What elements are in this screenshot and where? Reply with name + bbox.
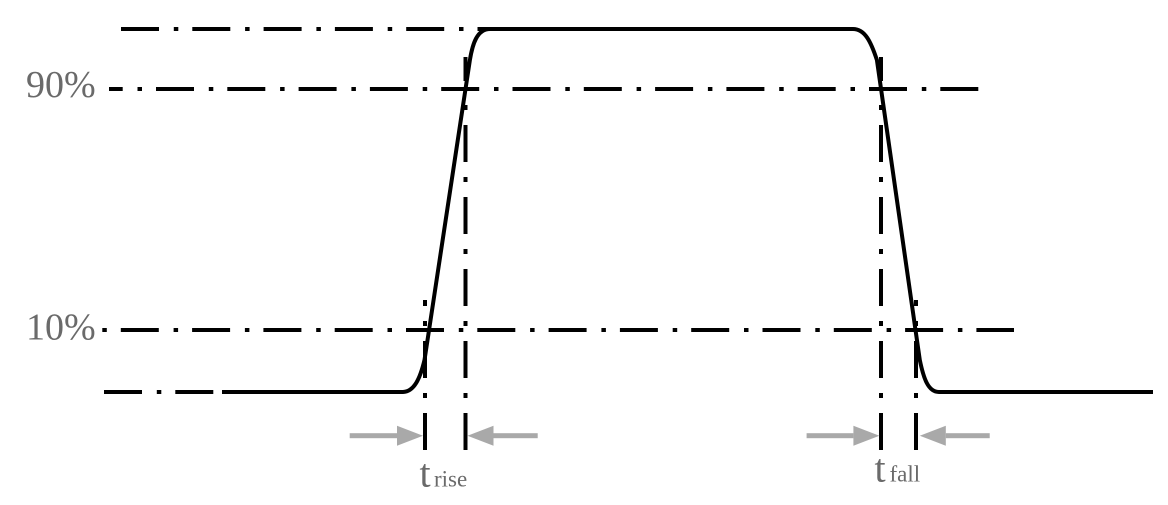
0% baseline dash-dot line (104, 390, 218, 394)
10% level dash-dot line (102, 328, 1014, 332)
fall left arrow (807, 426, 880, 446)
fall right arrow (920, 426, 990, 446)
vertical marker at rise 90% crossing (464, 57, 468, 450)
rise left arrow (350, 426, 423, 446)
rise right arrow (468, 426, 538, 446)
90% level dash-dot line (109, 87, 979, 91)
svg-text:rise: rise (434, 467, 467, 492)
100% level dash-dot line (121, 27, 491, 31)
vertical marker at rise 10% crossing (423, 300, 427, 450)
pulse waveform (222, 29, 1153, 392)
vertical marker at fall 10% crossing (914, 300, 918, 450)
svg-text:90%: 90% (26, 64, 96, 106)
vertical marker at fall 90% crossing (879, 57, 883, 450)
label t_fall (875, 445, 921, 490)
svg-text:t: t (875, 445, 886, 490)
label t_rise (420, 451, 468, 496)
svg-text:t: t (420, 451, 431, 496)
svg-text:10%: 10% (26, 307, 96, 349)
svg-text:fall: fall (890, 461, 921, 486)
